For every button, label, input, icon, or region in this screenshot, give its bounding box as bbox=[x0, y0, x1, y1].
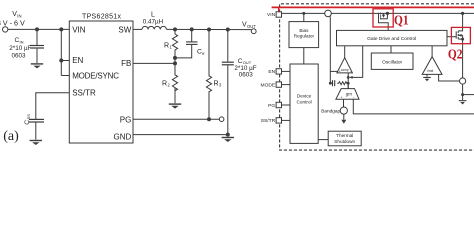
svg-text:OUT: OUT bbox=[247, 24, 256, 29]
node COUT top bbox=[226, 28, 230, 32]
net label VOUT bbox=[242, 22, 256, 29]
value label Cff bbox=[197, 49, 205, 56]
svg-text:SW: SW bbox=[118, 25, 131, 34]
op-amp gm error amplifier bbox=[347, 83, 349, 88]
wire FB to IC bbox=[133, 62, 175, 64]
wire branch to comparator minus bbox=[330, 70, 339, 72]
wire sense to comparator input bbox=[329, 17, 331, 84]
svg-text:−: − bbox=[353, 95, 355, 99]
wire rail to bias regulator bbox=[303, 13, 305, 21]
value label CIN bbox=[9, 37, 31, 59]
svg-text:0603: 0603 bbox=[12, 52, 27, 59]
capacitor COUT bbox=[222, 62, 234, 65]
wire GND bbox=[133, 134, 228, 136]
svg-text:EN: EN bbox=[72, 56, 83, 65]
dashed border of block diagram bbox=[280, 4, 474, 150]
wire Q2 source down bbox=[462, 84, 464, 95]
wire limit comparator to sense circle bbox=[439, 74, 460, 81]
ground CIN bbox=[31, 63, 43, 68]
op-amp current limit comparator bbox=[431, 46, 433, 57]
node Q2 source sense circle bbox=[460, 78, 466, 84]
wire to EN pin bbox=[61, 60, 69, 62]
svg-text:SS/TR: SS/TR bbox=[72, 89, 96, 98]
wire VIN rail to IC bbox=[8, 28, 70, 30]
node bias tap bbox=[302, 12, 305, 15]
svg-text:Thermal: Thermal bbox=[336, 133, 353, 138]
node FB lower bbox=[173, 61, 177, 65]
node VOUT terminal bbox=[251, 29, 256, 34]
resistor R1 bbox=[172, 29, 177, 58]
svg-text:0.47µH: 0.47µH bbox=[143, 19, 164, 26]
capacitor CSS bbox=[29, 119, 44, 122]
wire CSS to ground bbox=[35, 123, 37, 140]
svg-text:Regulator: Regulator bbox=[294, 33, 315, 38]
net label VIN supply bbox=[0, 11, 25, 27]
wire between FB nodes bbox=[174, 58, 176, 64]
svg-text:EN: EN bbox=[268, 69, 275, 75]
svg-text:GND: GND bbox=[114, 132, 132, 141]
svg-text:R: R bbox=[164, 43, 169, 50]
wire gm to bandgap bbox=[343, 99, 345, 107]
wire SW out bbox=[463, 94, 474, 96]
wire PG bbox=[133, 118, 219, 120]
svg-text:limit: limit bbox=[428, 69, 434, 73]
wire SW to inductor bbox=[133, 28, 142, 30]
block Device Control bbox=[290, 64, 318, 143]
svg-text:(a): (a) bbox=[3, 129, 19, 144]
resistor R2 bbox=[172, 63, 177, 103]
node comp feedback bbox=[347, 76, 350, 79]
op-amp PWM comparator bbox=[344, 46, 346, 58]
svg-text:FB: FB bbox=[121, 59, 131, 68]
svg-text:gm: gm bbox=[346, 91, 352, 96]
svg-text:TPS62851x: TPS62851x bbox=[82, 14, 121, 21]
svg-text:Bias: Bias bbox=[299, 28, 309, 33]
wire output rail bbox=[166, 28, 251, 30]
svg-text:+: + bbox=[341, 95, 343, 99]
svg-text:PG: PG bbox=[120, 115, 132, 124]
svg-text:MODE: MODE bbox=[261, 82, 276, 88]
pin MODE square bbox=[281, 84, 290, 86]
svg-text:ff: ff bbox=[202, 51, 205, 56]
svg-text:+: + bbox=[339, 70, 341, 74]
node R1 top bbox=[173, 27, 177, 31]
svg-text:PG: PG bbox=[268, 103, 275, 109]
node CIN junction bbox=[35, 27, 39, 31]
wire COUT to GND rail bbox=[227, 65, 229, 134]
wire bandgap to ground arrow bbox=[343, 114, 345, 120]
wire EN tie branch bbox=[60, 29, 62, 75]
annotation red VIN path bbox=[272, 7, 474, 11]
block Bias Regulator bbox=[289, 22, 319, 48]
node Cff top bbox=[190, 27, 194, 31]
ground limit comparator bbox=[426, 74, 428, 76]
svg-text:VIN: VIN bbox=[72, 25, 86, 34]
svg-text:2*10 µF: 2*10 µF bbox=[9, 45, 31, 52]
transistor Q2 bbox=[447, 12, 464, 78]
node cap junction bbox=[329, 82, 332, 85]
node VIN input terminal bbox=[2, 27, 7, 32]
svg-text:Q1: Q1 bbox=[394, 12, 409, 27]
svg-text:comp: comp bbox=[341, 68, 349, 72]
svg-text:R: R bbox=[162, 81, 167, 88]
wire gm right input to FB bbox=[353, 99, 474, 114]
resistor compensation bbox=[337, 82, 348, 85]
capacitor Cff branch wire bbox=[191, 29, 193, 41]
node FB upper bbox=[173, 56, 177, 60]
transistor Q1 bbox=[379, 12, 390, 31]
node EN junction bbox=[59, 27, 63, 31]
svg-text:R: R bbox=[214, 81, 219, 88]
svg-text:Bandgap: Bandgap bbox=[321, 108, 340, 113]
wire slope from gate drive bbox=[352, 46, 363, 78]
op-amp U1 TPS62851x IC box bbox=[69, 21, 133, 143]
node R3 to PG bbox=[207, 117, 211, 121]
svg-text:3 V - 6 V: 3 V - 6 V bbox=[0, 18, 25, 27]
resistor R3 bbox=[206, 30, 211, 120]
value label CSS bbox=[24, 114, 31, 125]
svg-text:0603: 0603 bbox=[239, 72, 254, 79]
ground PGND bbox=[462, 95, 464, 100]
svg-text:Q2: Q2 bbox=[448, 47, 463, 62]
node gm output bbox=[347, 82, 350, 85]
svg-text:MODE/SYNC: MODE/SYNC bbox=[72, 72, 119, 81]
node current sense bubble bbox=[325, 10, 332, 17]
svg-text:C: C bbox=[24, 120, 31, 125]
svg-text:3: 3 bbox=[219, 83, 222, 88]
wire CIN to ground bbox=[36, 49, 38, 63]
arrow into node bbox=[349, 76, 352, 79]
capacitor COUT branch bbox=[227, 30, 229, 62]
node EN tap bbox=[59, 59, 63, 63]
value label COUT bbox=[234, 58, 256, 79]
node bandgap reference circle bbox=[340, 107, 347, 114]
pin VIN square bbox=[276, 12, 281, 17]
svg-text:SS: SS bbox=[26, 114, 31, 120]
node GND junction bbox=[226, 133, 230, 137]
ground CSS bbox=[30, 140, 42, 145]
capacitor CIN bbox=[30, 46, 44, 49]
wire comparator output node bbox=[347, 73, 349, 89]
annotation box Q2 bbox=[451, 27, 470, 43]
svg-text:Device: Device bbox=[297, 94, 312, 99]
svg-text:2: 2 bbox=[168, 83, 171, 88]
svg-text:Control: Control bbox=[297, 100, 312, 105]
wire SS/TR bbox=[36, 93, 70, 119]
svg-text:VIN: VIN bbox=[267, 12, 276, 18]
wire CIN branch bbox=[36, 29, 38, 45]
block Thermal Shutdown bbox=[318, 139, 328, 141]
svg-text:L: L bbox=[151, 11, 155, 18]
node R3 top bbox=[207, 28, 211, 32]
svg-text:−: − bbox=[350, 70, 352, 74]
block Oscillator bbox=[390, 46, 392, 53]
wire bias to device control bbox=[303, 48, 305, 64]
annotation box Q1 bbox=[373, 9, 393, 27]
block Gate Drive and Control bbox=[337, 30, 448, 45]
pin EN square bbox=[281, 70, 290, 72]
svg-text:IN: IN bbox=[20, 39, 24, 44]
pin PG square bbox=[281, 104, 290, 106]
svg-text:Gate Drive and Control: Gate Drive and Control bbox=[367, 36, 416, 42]
svg-text:Shutdown: Shutdown bbox=[334, 139, 355, 144]
capacitor Cff bbox=[186, 42, 198, 45]
svg-text:SS/TR: SS/TR bbox=[261, 118, 276, 124]
node PGND junction bbox=[461, 93, 464, 96]
svg-text:Oscillator: Oscillator bbox=[382, 59, 402, 65]
wire Cff bottom to FB node bbox=[175, 45, 192, 58]
inductor L 0.47uH bbox=[142, 26, 166, 29]
wire cap to sense line bbox=[330, 82, 332, 84]
capacitor compensation bbox=[333, 80, 335, 86]
ground output bbox=[222, 137, 234, 142]
wire to MODE/SYNC pin bbox=[61, 75, 69, 77]
pin SS/TR square bbox=[281, 119, 290, 121]
node PG open terminal bbox=[219, 117, 224, 122]
ground R2 bbox=[169, 103, 181, 108]
wire internal VIN rail bbox=[281, 12, 474, 14]
